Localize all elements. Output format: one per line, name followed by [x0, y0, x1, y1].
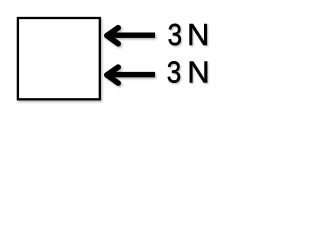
force arrow F1 (top, pointing left) — [104, 28, 155, 44]
force arrow F2 (bottom, pointing left) — [104, 67, 155, 83]
label 3 N (bottom) — [167, 55, 210, 91]
svg-text:N: N — [187, 17, 209, 52]
label 3 N (top) — [168, 17, 210, 53]
svg-text:N: N — [187, 55, 209, 90]
box (square block) — [18, 18, 100, 99]
svg-text:3: 3 — [168, 18, 182, 53]
svg-text:3: 3 — [167, 56, 181, 91]
